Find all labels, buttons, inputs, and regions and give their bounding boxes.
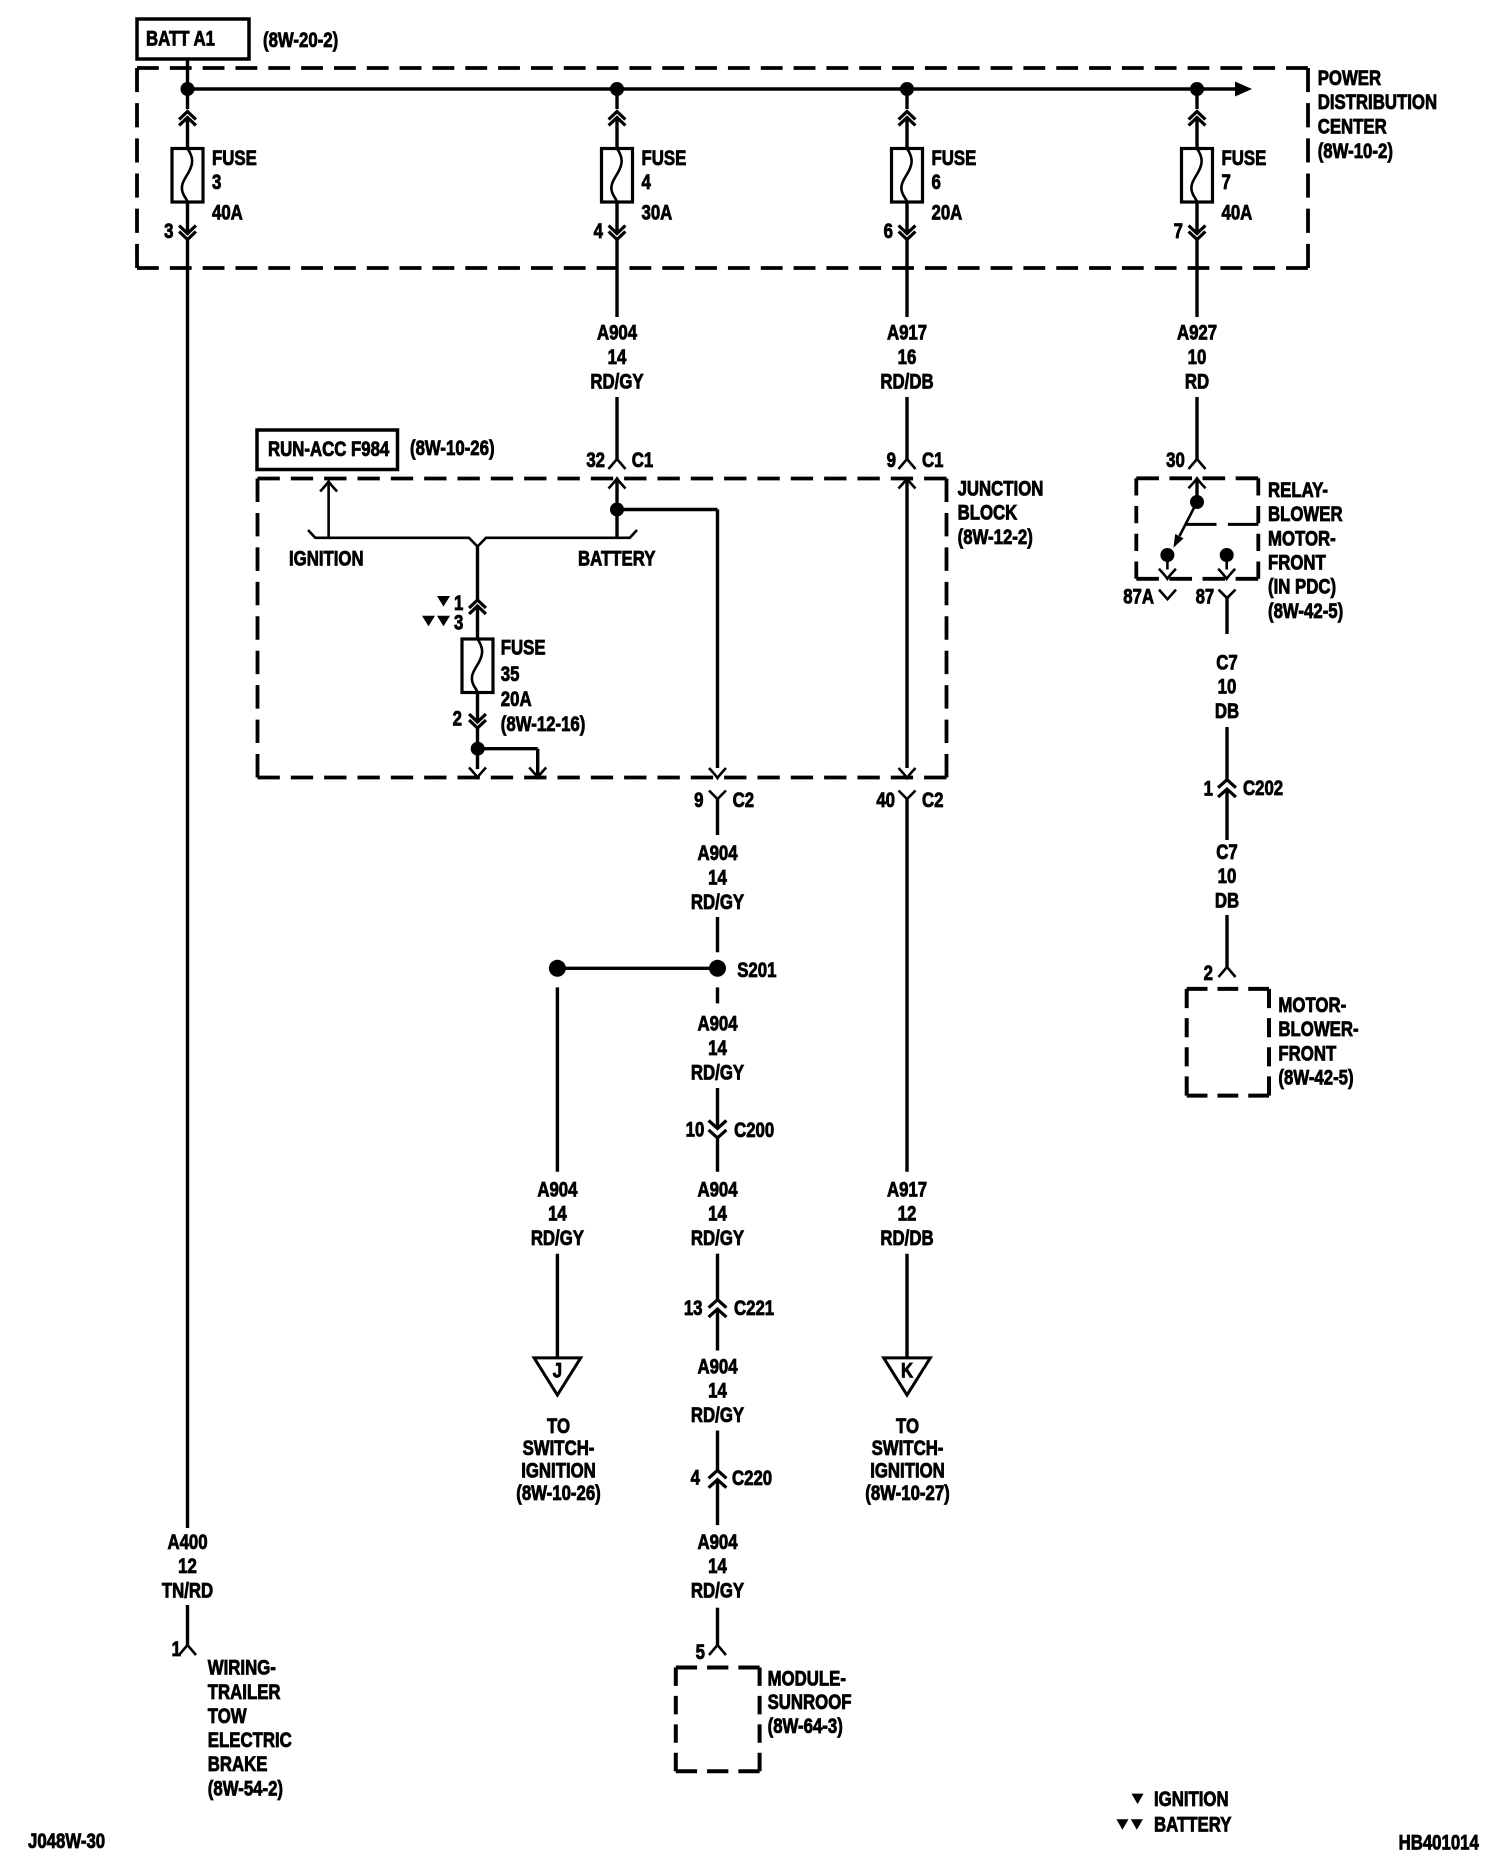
legend ignition mark [1132, 1794, 1144, 1805]
svg-text:MOTOR-: MOTOR- [1278, 994, 1346, 1017]
junction at left branch of S201 [549, 960, 566, 977]
wire battery feed down to bus bar [615, 510, 618, 537]
relay-blower motor-front box [1136, 476, 1258, 480]
svg-text:10: 10 [1188, 346, 1207, 369]
svg-text:6: 6 [932, 171, 941, 194]
node RUN-ACC F984 feed box [257, 430, 398, 470]
svg-text:(8W-42-5): (8W-42-5) [1278, 1067, 1353, 1090]
wire A917 into K arrow [905, 1254, 908, 1358]
junction on bus at fuse 6 [900, 82, 914, 96]
svg-text:(8W-10-26): (8W-10-26) [410, 437, 495, 460]
svg-text:10: 10 [1218, 865, 1237, 888]
arrow run-acc branch exit left [476, 749, 479, 769]
fuse F7 40A [1182, 149, 1213, 203]
wire C220 to A904 label [716, 1480, 719, 1525]
svg-text:POWER: POWER [1318, 67, 1382, 90]
wire C202 to C7 label [1225, 789, 1228, 840]
svg-text:BLOCK: BLOCK [958, 502, 1018, 525]
svg-text:(8W-64-3): (8W-64-3) [768, 1715, 843, 1738]
svg-text:K: K [901, 1360, 913, 1383]
wire S201 branch left [557, 967, 717, 970]
svg-text:C221: C221 [734, 1297, 775, 1320]
connector chevrons below fuse 35 pin 2 [469, 714, 486, 728]
connector chevrons below fuse 6 pin 6 [899, 226, 916, 240]
svg-text:40A: 40A [1222, 202, 1253, 225]
legend mark battery 3 [422, 616, 435, 627]
wire fuse 4 exit through PDC edge [615, 240, 618, 318]
connector chevrons above fuse 35 [469, 600, 486, 614]
connector C2 pin 40 legs [899, 791, 916, 800]
wire A904 to junction block C1 [615, 397, 618, 459]
junction node below fuse 35 [471, 742, 485, 756]
svg-text:1: 1 [172, 1638, 182, 1661]
svg-text:HB401014: HB401014 [1399, 1832, 1480, 1855]
connector chevrons below fuse 4 pin 4 [609, 226, 626, 240]
wire A904 to C221 [716, 1254, 719, 1300]
svg-text:(IN PDC): (IN PDC) [1268, 576, 1336, 599]
connector chevrons C221 [709, 1300, 727, 1317]
motor-blower-front box [1187, 987, 1269, 991]
wire fuse 7 exit through PDC edge [1195, 240, 1198, 318]
wire bus to fuse 3 connector [186, 89, 189, 109]
splice S201 junction [709, 960, 726, 977]
wire junction split to C2 branch [617, 508, 718, 511]
svg-text:C2: C2 [733, 789, 754, 812]
legend battery mark [1116, 1819, 1128, 1830]
svg-text:A904: A904 [697, 1356, 738, 1379]
wire A927 to relay pin 30 [1195, 397, 1198, 459]
svg-text:A917: A917 [887, 1179, 927, 1202]
svg-text:ELECTRIC: ELECTRIC [208, 1729, 292, 1752]
svg-text:32: 32 [586, 450, 605, 473]
wire C221 to A904 label [716, 1309, 719, 1350]
svg-text:FUSE: FUSE [642, 147, 687, 170]
svg-text:7: 7 [1174, 221, 1183, 244]
svg-text:A904: A904 [537, 1179, 578, 1202]
wire into fuse 4 [615, 118, 618, 150]
svg-text:4: 4 [594, 221, 604, 244]
svg-text:87: 87 [1196, 586, 1215, 609]
fuse F4 30A [602, 149, 633, 203]
svg-text:BATT A1: BATT A1 [146, 28, 215, 51]
svg-text:30A: 30A [642, 202, 673, 225]
svg-text:RD/GY: RD/GY [531, 1227, 584, 1250]
connector chevrons above fuse 7 [1189, 112, 1206, 126]
svg-text:(8W-12-2): (8W-12-2) [958, 526, 1033, 549]
svg-text:(8W-10-27): (8W-10-27) [865, 1482, 950, 1505]
svg-text:14: 14 [708, 867, 727, 890]
wire battery branch down to C2 pin 9 [716, 510, 719, 769]
svg-text:FUSE: FUSE [1222, 147, 1267, 170]
svg-text:FUSE: FUSE [501, 637, 546, 660]
wire below fuse 4 [615, 202, 618, 234]
svg-text:14: 14 [708, 1203, 727, 1226]
svg-text:35: 35 [501, 663, 520, 686]
svg-text:(8W-42-5): (8W-42-5) [1268, 600, 1343, 623]
wire A917 to junction block C1 pin 9 [905, 397, 908, 459]
svg-text:FRONT: FRONT [1268, 552, 1326, 575]
svg-text:A904: A904 [697, 1013, 738, 1036]
node BATT A1 feed box [137, 19, 249, 59]
connector 87 legs [1219, 590, 1236, 599]
svg-text:RD/GY: RD/GY [691, 1062, 744, 1085]
svg-text:RD/GY: RD/GY [691, 1227, 744, 1250]
svg-text:IGNITION: IGNITION [1154, 1788, 1229, 1811]
wire fuse 6 exit through PDC edge [905, 240, 908, 318]
wire below fuse 35 [476, 693, 479, 723]
wire A400 from fuse 3 down [186, 268, 189, 1528]
svg-text:RELAY-: RELAY- [1268, 479, 1328, 502]
svg-text:RD/GY: RD/GY [691, 1580, 744, 1603]
legend mark ignition 1 [437, 596, 450, 607]
wire A904 into J arrow [556, 1254, 559, 1358]
arrow battery feed entering junction block [609, 479, 626, 489]
wire from BATT A1 to bus [186, 59, 189, 84]
svg-text:13: 13 [684, 1297, 703, 1320]
wire brace to fuse 35 [476, 547, 479, 601]
svg-text:BRAKE: BRAKE [208, 1754, 268, 1777]
junction block box [258, 477, 947, 481]
svg-text:FRONT: FRONT [1278, 1043, 1336, 1066]
svg-text:C1: C1 [922, 450, 944, 473]
svg-text:40: 40 [876, 789, 895, 812]
relay switch arm to 87A [1180, 502, 1198, 536]
svg-text:30: 30 [1166, 450, 1185, 473]
wire C200 to A904 label [716, 1138, 719, 1172]
svg-text:SUNROOF: SUNROOF [768, 1692, 852, 1715]
connector chevrons C202 [1218, 780, 1236, 797]
svg-text:3: 3 [164, 221, 173, 244]
wire A904 to sunroof module [716, 1608, 719, 1645]
svg-text:C1: C1 [632, 450, 654, 473]
wire fuse 3 exit through PDC edge [186, 240, 189, 269]
wire 87 down [1225, 598, 1228, 634]
svg-text:A904: A904 [697, 1179, 738, 1202]
svg-text:WIRING-: WIRING- [208, 1657, 276, 1680]
connector pin 2 legs [1219, 967, 1236, 977]
arrow run-acc branch exit right [529, 768, 546, 778]
svg-text:BLOWER: BLOWER [1268, 503, 1343, 526]
svg-text:9: 9 [694, 789, 703, 812]
wire A917 to switch-ignition K [905, 835, 908, 1172]
svg-text:A904: A904 [697, 843, 738, 866]
wire A904 to splice S201 [716, 917, 719, 952]
junction on bus at fuse 4 [610, 82, 624, 96]
arrow 87 exit relay [1218, 569, 1235, 579]
wire A400 lower segment [186, 1605, 189, 1645]
svg-text:TO: TO [547, 1415, 570, 1438]
svg-text:A917: A917 [887, 322, 927, 345]
wire stub below S201 [716, 987, 719, 1003]
arrow exit at C2 pin 9 [709, 768, 726, 778]
svg-text:DB: DB [1215, 700, 1239, 723]
svg-text:S201: S201 [737, 960, 777, 983]
connector chevrons above fuse 3 [179, 112, 196, 126]
fuse F6 20A [892, 149, 923, 203]
svg-text:4: 4 [642, 171, 652, 194]
svg-text:TN/RD: TN/RD [162, 1580, 213, 1603]
svg-text:BLOWER-: BLOWER- [1278, 1018, 1358, 1041]
bus bar brace IGNITION/BATTERY select [308, 530, 637, 547]
svg-text:C7: C7 [1216, 652, 1237, 675]
connector 87A stub [1159, 590, 1176, 600]
wire below fuse 3 [186, 202, 189, 234]
svg-text:RD: RD [1185, 371, 1209, 394]
wire A904 to C200 [716, 1088, 719, 1129]
arrow A917 entering junction block [899, 479, 916, 489]
wire into fuse 7 [1195, 118, 1198, 150]
wire A917 through junction block [905, 479, 908, 769]
svg-text:6: 6 [884, 221, 893, 244]
svg-text:2: 2 [1204, 962, 1213, 985]
svg-text:A904: A904 [597, 322, 638, 345]
svg-text:(8W-54-2): (8W-54-2) [208, 1778, 283, 1801]
svg-text:IGNITION: IGNITION [521, 1460, 596, 1483]
svg-text:40A: 40A [212, 202, 243, 225]
svg-text:MODULE-: MODULE- [768, 1668, 846, 1691]
svg-text:(8W-10-2): (8W-10-2) [1318, 140, 1393, 163]
power distribution center box [137, 66, 1308, 70]
arrow ignition feed inside junction block [327, 484, 330, 537]
svg-text:C220: C220 [732, 1468, 772, 1491]
connector chevrons above fuse 4 [609, 112, 626, 126]
wire bus to fuse 6 connector [905, 89, 908, 109]
junction on bus at fuse 3 [181, 82, 195, 96]
svg-text:87A: 87A [1123, 586, 1154, 609]
wire fuse 35 to junction node [476, 728, 479, 749]
arrow 87A exit relay [1159, 569, 1176, 579]
svg-text:RUN-ACC F984: RUN-ACC F984 [268, 438, 390, 461]
svg-text:RD/GY: RD/GY [691, 891, 744, 914]
svg-text:BATTERY: BATTERY [578, 548, 656, 571]
wire junction split below fuse 35 [478, 747, 538, 750]
svg-text:RD/GY: RD/GY [691, 1404, 744, 1427]
svg-text:12: 12 [178, 1556, 197, 1579]
svg-text:FUSE: FUSE [212, 147, 257, 170]
svg-text:14: 14 [708, 1380, 727, 1403]
off-page connector J [534, 1358, 581, 1395]
wire battery bus B+ [188, 87, 1237, 90]
svg-text:10: 10 [686, 1119, 705, 1142]
svg-text:FUSE: FUSE [932, 147, 977, 170]
svg-text:C202: C202 [1243, 778, 1283, 801]
svg-text:14: 14 [548, 1203, 567, 1226]
svg-text:SWITCH-: SWITCH- [872, 1437, 944, 1460]
relay contact 87 node [1220, 548, 1234, 562]
connector pin 30 legs [1189, 459, 1206, 469]
svg-text:4: 4 [691, 1467, 701, 1490]
wire S201 to switch-ignition J [556, 987, 559, 1171]
svg-text:20A: 20A [501, 688, 532, 711]
fuse F3 40A [172, 149, 203, 203]
junction node battery feed split [610, 503, 624, 517]
wire C7 to C202 [1225, 727, 1228, 780]
relay internal dashed line [1186, 523, 1217, 526]
svg-text:3: 3 [454, 612, 463, 635]
svg-text:J: J [553, 1360, 562, 1383]
svg-text:14: 14 [608, 346, 627, 369]
fuse F35 20A [462, 639, 493, 693]
svg-text:RD/DB: RD/DB [880, 1227, 933, 1250]
arrow pin 30 entering relay [1189, 478, 1206, 488]
svg-text:7: 7 [1222, 171, 1231, 194]
svg-text:C2: C2 [922, 789, 943, 812]
svg-text:MOTOR-: MOTOR- [1268, 528, 1336, 551]
svg-text:(8W-12-16): (8W-12-16) [501, 713, 586, 736]
svg-text:2: 2 [453, 708, 462, 731]
wire into fuse 35 [476, 606, 479, 639]
svg-text:10: 10 [1218, 676, 1237, 699]
svg-text:BATTERY: BATTERY [1154, 1814, 1232, 1837]
connector chevrons C200 [709, 1121, 727, 1138]
connector chevrons below fuse 3 pin 3 [179, 226, 196, 240]
svg-text:16: 16 [898, 346, 917, 369]
off-page connector K [884, 1358, 931, 1395]
svg-text:20A: 20A [932, 202, 963, 225]
svg-text:TOW: TOW [208, 1705, 247, 1728]
svg-text:14: 14 [708, 1037, 727, 1060]
connector chevrons C220 [709, 1470, 727, 1487]
module-sunroof box [676, 1666, 760, 1670]
svg-text:A904: A904 [697, 1531, 738, 1554]
wire into fuse 3 [186, 118, 189, 150]
connector C1 pin 32 legs [609, 459, 626, 469]
svg-text:C200: C200 [734, 1119, 774, 1142]
svg-text:C7: C7 [1216, 841, 1237, 864]
svg-text:RD/DB: RD/DB [880, 371, 933, 394]
svg-text:14: 14 [708, 1556, 727, 1579]
connector chevrons below fuse 7 pin 7 [1189, 226, 1206, 240]
svg-text:DB: DB [1215, 890, 1239, 913]
wire A904 to C220 [716, 1431, 719, 1471]
connector C2 pin 9 legs [709, 791, 726, 800]
svg-text:IGNITION: IGNITION [870, 1460, 945, 1483]
svg-text:TRAILER: TRAILER [208, 1681, 281, 1704]
svg-text:3: 3 [212, 171, 221, 194]
svg-text:SWITCH-: SWITCH- [523, 1437, 595, 1460]
relay contact 87A node [1160, 548, 1174, 562]
arrow exit at C2 pin 40 [899, 768, 916, 778]
wire below fuse 6 [905, 202, 908, 234]
svg-text:TO: TO [896, 1415, 919, 1438]
wire below fuse 7 [1195, 202, 1198, 234]
connector chevrons above fuse 6 [899, 112, 916, 126]
svg-text:(8W-10-26): (8W-10-26) [516, 1482, 601, 1505]
svg-text:JUNCTION: JUNCTION [958, 478, 1044, 501]
junction on bus at fuse 7 [1190, 82, 1204, 96]
connector at wiring-trailer tow [179, 1645, 196, 1655]
connector C1 pin 9 legs [899, 459, 916, 469]
svg-text:J048W-30: J048W-30 [28, 1831, 105, 1854]
wire into fuse 6 [905, 118, 908, 150]
svg-text:(8W-20-2): (8W-20-2) [263, 29, 338, 52]
relay common contact node [1190, 495, 1204, 509]
svg-text:DISTRIBUTION: DISTRIBUTION [1318, 92, 1437, 115]
wire bus to fuse 4 connector [615, 89, 618, 109]
svg-text:RD/GY: RD/GY [590, 371, 643, 394]
svg-text:A927: A927 [1177, 322, 1217, 345]
svg-text:A400: A400 [167, 1531, 207, 1554]
svg-text:5: 5 [696, 1641, 706, 1664]
svg-text:1: 1 [1204, 778, 1214, 801]
wire bus to fuse 7 connector [1195, 89, 1198, 109]
svg-text:12: 12 [898, 1203, 917, 1226]
wire C7 to blower motor pin 2 [1225, 915, 1228, 967]
svg-text:CENTER: CENTER [1318, 116, 1387, 139]
connector pin 5 legs [709, 1645, 726, 1655]
svg-text:9: 9 [887, 450, 896, 473]
svg-text:IGNITION: IGNITION [289, 548, 364, 571]
